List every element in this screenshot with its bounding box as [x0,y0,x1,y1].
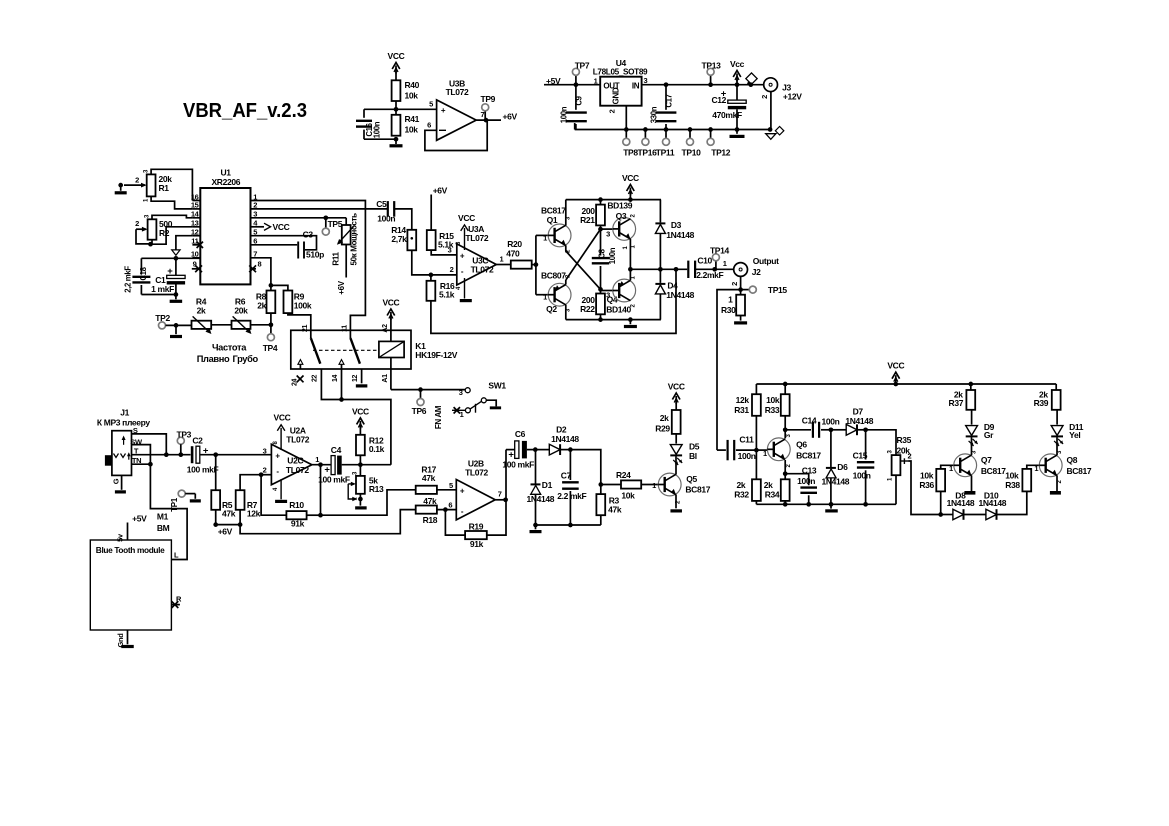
test point TP12 [707,127,731,157]
ground right section [825,504,838,512]
node R36/D8 [938,512,943,517]
svg-text:6: 6 [427,121,431,130]
svg-text:Q2: Q2 [546,304,557,314]
wire R16 feedback to output [431,269,676,333]
svg-text:J1: J1 [120,407,129,417]
node C2/R5 tap [213,452,218,457]
wire pin10 to C1/C18 [141,257,200,259]
svg-text:Q5: Q5 [686,474,697,484]
wire J1 S pin [132,426,167,455]
relay K1 box [291,330,458,369]
wire A1 to SW1 [391,389,465,391]
resistor R24 10k [601,470,658,501]
wire bottom rail output stage [566,305,661,320]
wire R14 to U3C pin2 [412,250,457,275]
svg-text:R21: R21 [580,215,595,225]
IC U1 XR2206 [200,167,250,284]
node TP5 tap [323,215,328,220]
svg-text:C7: C7 [561,470,572,480]
svg-text:50к Мощность: 50к Мощность [350,213,359,266]
svg-text:2: 2 [908,452,912,461]
capacitor C2 100mkF [187,435,272,474]
node C4/R12/R13 [358,462,363,467]
svg-text:Частота: Частота [212,343,247,353]
node rail C15 [863,502,868,507]
wire U1 pin1 to relay pin11 [251,201,366,332]
capacitor C1 1mkF [151,258,185,294]
svg-text:R30: R30 [721,305,736,315]
svg-text:R37: R37 [949,398,964,408]
svg-text:1: 1 [728,295,733,305]
wire pin7 to R8/R9 [251,258,271,286]
wire +6V rail [216,525,240,537]
resistor R29 2k [655,410,680,434]
svg-text:100n: 100n [608,247,617,264]
svg-text:7: 7 [498,490,502,499]
svg-text:TL072: TL072 [471,265,494,275]
svg-text:TL072: TL072 [286,435,309,445]
capacitor C13 100n [785,465,817,504]
svg-text:TL072: TL072 [465,468,488,478]
node rail R34 [783,502,788,507]
label L pin [174,551,179,560]
resistor R38 10k [1005,464,1039,491]
test point TP13 [702,61,722,88]
node U2A pin2 [259,472,264,477]
svg-text:1N4148: 1N4148 [947,498,975,508]
resistor R18 47k [416,496,457,525]
node R37 rail [968,382,973,387]
svg-text:IN: IN [632,82,640,91]
transistor Q6 BC817 [767,434,821,468]
wire Q1 collector to VCC rail [565,200,567,226]
svg-text:TP4: TP4 [263,343,278,353]
svg-text:R38: R38 [1005,480,1020,490]
transistor Q4 BD140 [613,276,637,308]
net label +5V [544,76,600,86]
svg-text:5v: 5v [116,533,125,542]
node S-T tie [164,452,169,457]
op-amp U3C TL072 [456,213,496,285]
node R5 bottom +6V [213,510,218,527]
ground at D1 rail [530,525,542,533]
node R13 bottom [358,494,363,502]
svg-text:+: + [460,486,465,495]
svg-text:2.2 mkF: 2.2 mkF [557,491,586,501]
wire Q4 base [601,289,613,299]
node U2B out [503,497,508,502]
node R14/R16 junction [429,273,434,278]
wire U2A pin2 stub [261,465,271,474]
capacitor C7 2.2mkF [557,450,586,525]
svg-text:Грубо: Грубо [233,354,259,364]
U1 pin 8 stub with X [249,260,261,273]
svg-text:100n: 100n [853,471,871,481]
wire R20 to bases [532,264,536,266]
trimmer R14 2,7k [391,225,416,251]
svg-text:C18: C18 [139,266,148,280]
svg-text:1: 1 [500,255,504,264]
svg-text:2: 2 [135,176,139,185]
svg-text:2k: 2k [257,300,266,310]
svg-text:1: 1 [1034,464,1038,473]
svg-text:К MP3 плееру: К MP3 плееру [97,417,150,427]
module R pin with X [171,595,182,609]
node rail R22 [598,317,603,322]
potentiometer R13 5k [348,465,384,502]
ground at R1 [115,185,127,194]
wire to U3B pin5 [396,100,437,110]
svg-text:VCC: VCC [382,298,399,308]
resistor R36 10k [919,464,953,515]
svg-text:47k: 47k [222,509,236,519]
svg-text:U4: U4 [616,58,627,68]
node feedback tap [674,267,679,272]
svg-text:1N4148: 1N4148 [666,290,694,300]
U1 pin 9 stub with X [192,260,202,273]
ground at TP2 [170,325,182,338]
ground at module Gnd [116,630,134,648]
svg-text:1: 1 [543,293,547,302]
node Q6 emitter [783,460,788,476]
svg-text:8: 8 [258,260,262,269]
LED D11 Yel [1051,410,1084,455]
svg-text:Vcc: Vcc [730,59,745,69]
svg-text:C3: C3 [303,230,314,240]
svg-text:TP13: TP13 [702,61,722,71]
wire J1 SW pin [130,437,150,464]
wire +6V to R18 [240,510,416,534]
node C12 bottom [735,127,740,132]
svg-text:TP12: TP12 [711,148,731,158]
wire pin3 to R11 [251,218,347,225]
wire R6 to node [251,324,271,326]
LED D9 Gr [966,410,995,455]
test point TP16 [638,127,658,157]
node D3 mid [658,267,663,272]
test point TP8 [623,127,639,157]
capacitor C11 100n [717,435,756,461]
wire U3B pin6 feedback [425,120,487,150]
svg-text:Bl: Bl [689,451,697,461]
wire R4-R6 [211,324,231,326]
svg-text:TP1: TP1 [170,497,179,512]
wire R10 node to R17 [321,490,416,515]
svg-text:3: 3 [263,446,267,455]
svg-text:C13: C13 [802,465,817,475]
svg-text:+6V: +6V [337,280,346,294]
U1 pin 11 X [197,242,203,248]
connector J2 Output [734,256,779,277]
resistor R17 47k [416,464,457,494]
svg-text:330n: 330n [650,106,659,123]
node rail Q3 [628,197,633,202]
svg-text:J2: J2 [752,267,761,277]
transistor Q5 BC817 [658,473,711,504]
svg-text:+6V: +6V [433,185,448,195]
ground at R13 [355,499,367,510]
svg-text:C14: C14 [802,416,817,426]
svg-text:C6: C6 [515,429,526,439]
svg-text:20k: 20k [234,306,248,316]
node R20 output [534,262,539,267]
capacitor C5 100n [376,199,395,223]
svg-text:TP15: TP15 [768,285,788,295]
node rail C7 [568,523,573,528]
svg-text:Yel: Yel [1069,430,1080,440]
node J2 bottom [738,287,743,292]
node R6/R8 junction [269,322,274,327]
wire R2 bottom to pin13 [151,227,193,244]
wire to J2 [715,259,734,269]
label Плавно Грубо [197,354,259,364]
svg-text:+6V: +6V [218,526,233,536]
svg-text:VBR_AF_v.2.3: VBR_AF_v.2.3 [183,99,307,122]
svg-text:1: 1 [652,481,656,490]
ground at Q5 emitter [670,495,682,513]
svg-text:11: 11 [191,237,198,246]
node U3B output [484,118,489,123]
node Q6 base [754,448,759,453]
svg-text:3: 3 [644,76,648,85]
node rail R21 [598,197,603,202]
capacitor C16 100n [356,109,396,139]
wire R2 top to pin14 [152,215,192,219]
svg-text:47k: 47k [423,496,437,506]
potentiometer R4 2k [192,297,212,335]
node C1 bottom [174,292,179,297]
U1 right pin labels [253,192,258,258]
node TP6 tap [418,387,423,392]
svg-text:VCC: VCC [668,382,685,392]
svg-text:12k: 12k [736,395,750,405]
svg-text:1N4148: 1N4148 [666,230,694,240]
wire Q6 base stub [756,449,767,458]
relay dashed link [313,349,379,351]
diode D6 1N4148 [822,430,850,505]
svg-text:C12: C12 [711,95,726,105]
node C14/D6 [829,427,834,432]
svg-text:5: 5 [449,481,453,490]
test point TP11 [656,127,675,157]
svg-text:Blue Tooth module: Blue Tooth module [96,545,165,555]
ground bar Q8 emitter [1050,475,1061,494]
module M1 BM [90,512,171,630]
svg-text:0.1k: 0.1k [369,444,385,454]
potentiometer R11 50k [332,213,359,266]
node U2A out [318,462,323,467]
resistor R3 47k [596,485,621,526]
svg-text:1N4148: 1N4148 [845,416,873,426]
svg-text:1N4148: 1N4148 [822,476,850,486]
resistor R37 2k [949,384,976,410]
wire R15 to U3C pin3 [431,245,457,255]
wire VCC rail output stage [566,199,661,201]
svg-text:C4: C4 [331,445,342,455]
svg-text:D3: D3 [671,220,682,230]
svg-text:VCC: VCC [352,406,369,416]
node R33 rail [783,382,788,387]
wire C4 to node [342,464,361,466]
svg-text:BM: BM [157,523,170,533]
svg-text:C10: C10 [697,255,712,265]
node rail C13 [806,502,811,507]
ground bar Q7 emitter [964,475,975,494]
svg-text:+: + [275,451,280,460]
node junction R41 bottom [394,137,399,142]
svg-text:+: + [167,266,173,277]
node junction R40/R41 [394,107,399,112]
svg-text:10: 10 [191,250,199,259]
relay pin 22 label [312,375,319,383]
capacitor C4 100mkF [318,445,350,485]
resistor R33 10k [765,384,790,430]
wire J1 TN pin [132,456,151,465]
wire D7 node to R35 [866,430,896,448]
svg-text:U1: U1 [221,167,232,177]
node SW-TN tie [148,462,153,467]
diode D2 1N4148 [535,425,579,456]
svg-text:22: 22 [312,375,319,383]
node rail D6 [829,502,834,507]
wire relay A1 [382,358,391,390]
resistor R34 2k [764,474,790,505]
svg-text:100n: 100n [377,213,395,223]
wire U4 GND pin2 [608,106,627,130]
svg-text:12k: 12k [247,509,261,519]
node R7 bottom [238,510,243,527]
svg-text:14: 14 [332,375,339,383]
svg-text:+: + [441,106,446,115]
svg-text:100n: 100n [822,417,840,427]
node TP3 tap [178,452,183,457]
svg-text:R19: R19 [469,521,484,531]
resistor R22 200 [580,294,631,315]
test point TP4 [263,325,278,353]
svg-text:1: 1 [594,77,598,86]
wire R1 top to pin16 [151,169,192,200]
transistor Q1 BC817 [541,206,572,254]
svg-text:R35: R35 [897,435,912,445]
svg-text:3: 3 [459,388,463,397]
node R21 bottom [598,225,603,231]
node rail gnd [628,317,633,322]
svg-text:GND: GND [612,87,621,104]
node R10 right [318,465,323,518]
resistor R21 200 [580,200,633,226]
svg-text:Плавно: Плавно [197,354,230,364]
node TP2 gnd [174,323,179,328]
svg-text:C8: C8 [598,248,607,258]
label Частота [212,343,247,353]
wire VCC rail right [756,383,1056,385]
wire C4 node to relay net [360,464,391,466]
wire J2 pin2 [730,276,741,289]
svg-text:FN AM: FN AM [434,405,443,429]
svg-text:R40: R40 [405,80,420,90]
svg-text:TP9: TP9 [481,94,496,104]
power flag VCC at C12 [730,59,745,87]
transistor Q8 BC817 [1039,450,1092,484]
wire J1 T pin signal [132,446,191,455]
wire U2B output [495,490,506,500]
wire Q3 emitter [623,239,630,269]
svg-text:VCC: VCC [273,222,290,232]
relay contact arm 2 [350,330,360,363]
wire TP15 node to right section [717,290,741,451]
svg-text:BC817: BC817 [1067,466,1092,476]
svg-text:BC817: BC817 [796,450,821,460]
svg-text:R13: R13 [369,484,384,494]
svg-text:Q1: Q1 [547,215,558,225]
test point TP2 [155,313,191,329]
svg-text:BD140: BD140 [606,305,631,315]
svg-text:L78L05_SOT89: L78L05_SOT89 [593,68,648,77]
power flag VCC at R40 [388,51,405,80]
svg-text:100n: 100n [372,121,381,138]
wire D2 to R3 node [570,450,600,485]
wire R9 to relay pin21 [288,313,311,332]
svg-text:91k: 91k [291,518,305,528]
svg-text:100 mkF: 100 mkF [318,475,350,485]
wire Q2 collector cross [566,229,601,284]
svg-text:2.2mkF: 2.2mkF [696,270,723,280]
potentiometer R2 500 [135,214,173,240]
svg-text:1N4148: 1N4148 [979,498,1007,508]
svg-text:6: 6 [448,500,452,509]
svg-text:R10: R10 [289,500,304,510]
svg-text:2: 2 [450,265,454,274]
svg-text:R18: R18 [423,515,438,525]
svg-text:D1: D1 [542,480,553,490]
test point TP14 [710,245,730,269]
svg-text:Q3: Q3 [616,211,627,221]
capacitor C14 100n [785,416,839,438]
op-amp U2B TL072 [456,459,495,520]
potentiometer R35 20k [887,435,911,504]
svg-text:+: + [460,251,465,260]
capacitor C10 2.2mkF [688,255,723,280]
net label +6V at U3B out [503,111,518,121]
net label +6V at R11 [337,245,346,295]
svg-text:BC807: BC807 [541,271,566,281]
svg-text:A1: A1 [382,374,389,383]
node R3/R24 [598,482,603,487]
resistor R39 2k [1034,384,1061,410]
resistor R19 91k [445,500,506,549]
resistor R40 10k [392,80,420,101]
test point TP15 [741,285,788,295]
capacitor C6 100mkF [502,429,535,500]
transistor Q7 BC817 [954,450,1007,477]
svg-text:+5V: +5V [132,513,147,523]
svg-text:HK19F-12V: HK19F-12V [415,350,457,360]
svg-text:1: 1 [315,455,319,464]
wire pin12 arrow to pin10 net [172,236,193,256]
svg-text:TP6: TP6 [412,406,427,416]
resistor R9 100k [271,285,312,313]
svg-text:3: 3 [606,229,610,238]
svg-text:VCC: VCC [622,173,639,183]
svg-text:3: 3 [606,291,610,300]
svg-text:TL072: TL072 [465,233,488,243]
wire R1 bottom to pin15 [151,196,192,209]
svg-text:TP11: TP11 [656,148,675,158]
wire base bus [536,235,548,294]
transistor Q3 BD139 [613,211,637,248]
node Q6 collector [783,427,788,438]
svg-text:1: 1 [763,449,767,458]
